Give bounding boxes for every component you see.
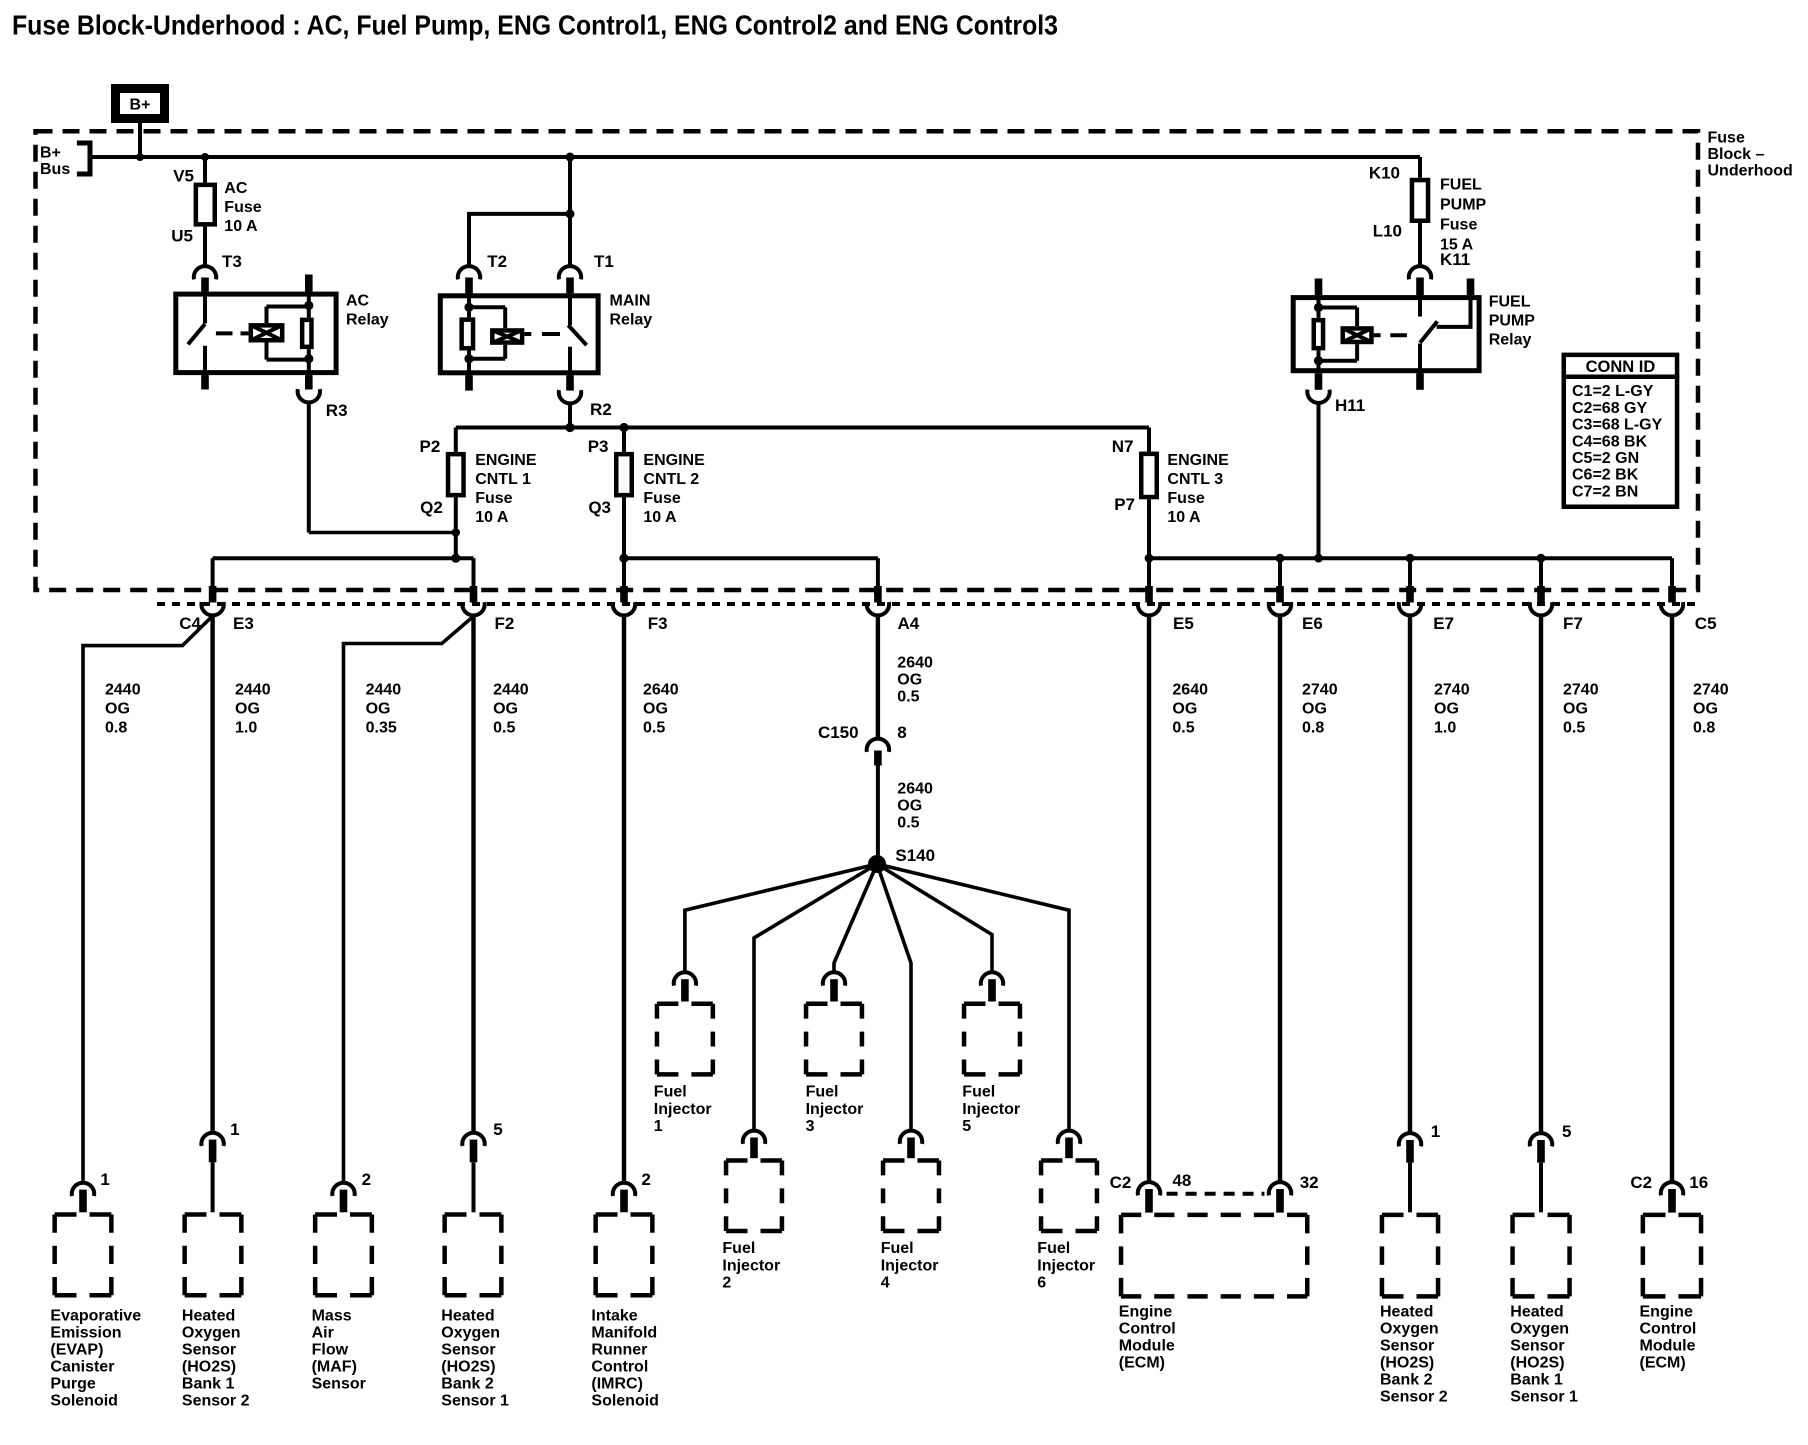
svg-text:OG: OG	[105, 701, 130, 718]
svg-text:Fuse: Fuse	[1708, 129, 1745, 146]
svg-text:OG: OG	[493, 701, 518, 718]
svg-text:Underhood: Underhood	[1708, 163, 1793, 180]
svg-text:P3: P3	[588, 437, 609, 456]
svg-text:0.5: 0.5	[897, 688, 919, 705]
svg-text:Heated: Heated	[1380, 1304, 1433, 1321]
svg-text:Evaporative: Evaporative	[50, 1307, 141, 1324]
svg-text:2740: 2740	[1563, 682, 1599, 699]
svg-text:OG: OG	[1563, 701, 1588, 718]
svg-text:OG: OG	[897, 797, 922, 814]
svg-text:Air: Air	[312, 1324, 334, 1341]
svg-text:4: 4	[881, 1275, 890, 1292]
svg-text:1: 1	[654, 1118, 663, 1135]
svg-text:2440: 2440	[493, 682, 529, 699]
svg-text:E3: E3	[233, 614, 254, 633]
svg-text:OG: OG	[897, 671, 922, 688]
svg-text:Solenoid: Solenoid	[50, 1392, 118, 1409]
svg-text:Bank 2: Bank 2	[441, 1375, 494, 1392]
svg-text:Injector: Injector	[654, 1101, 712, 1118]
svg-text:(HO2S): (HO2S)	[441, 1358, 495, 1375]
svg-text:C5: C5	[1695, 614, 1717, 633]
svg-text:1: 1	[100, 1170, 109, 1189]
svg-text:Fuel: Fuel	[654, 1084, 687, 1101]
svg-text:Sensor: Sensor	[441, 1341, 495, 1358]
svg-text:Fuse: Fuse	[1440, 217, 1477, 234]
svg-text:A4: A4	[898, 614, 920, 633]
svg-text:Fuse Block-Underhood : AC, Fue: Fuse Block-Underhood : AC, Fuel Pump, EN…	[12, 10, 1058, 41]
svg-text:2640: 2640	[897, 780, 933, 797]
svg-text:2440: 2440	[366, 682, 402, 699]
svg-text:Canister: Canister	[50, 1358, 114, 1375]
svg-text:Mass: Mass	[312, 1307, 352, 1324]
svg-text:3: 3	[806, 1118, 815, 1135]
svg-text:Fuel: Fuel	[1037, 1240, 1070, 1257]
svg-text:10 A: 10 A	[475, 509, 509, 526]
svg-text:(HO2S): (HO2S)	[182, 1358, 236, 1375]
svg-text:(IMRC): (IMRC)	[591, 1375, 643, 1392]
svg-text:CNTL 1: CNTL 1	[475, 471, 531, 488]
svg-text:ENGINE: ENGINE	[475, 452, 537, 469]
svg-text:U5: U5	[171, 227, 193, 246]
svg-text:Fuse: Fuse	[475, 490, 512, 507]
svg-text:2740: 2740	[1434, 682, 1470, 699]
svg-text:0.5: 0.5	[1172, 720, 1194, 737]
svg-text:C5=2 GN: C5=2 GN	[1572, 450, 1639, 467]
svg-text:2740: 2740	[1693, 682, 1729, 699]
svg-text:E6: E6	[1302, 614, 1323, 633]
svg-text:32: 32	[1300, 1173, 1319, 1192]
svg-text:Bank 1: Bank 1	[1510, 1372, 1563, 1389]
svg-text:P2: P2	[420, 437, 441, 456]
svg-text:PUMP: PUMP	[1489, 313, 1536, 330]
svg-text:T2: T2	[487, 252, 507, 271]
svg-text:MAIN: MAIN	[610, 293, 651, 310]
svg-text:8: 8	[897, 723, 906, 742]
svg-text:OG: OG	[1172, 701, 1197, 718]
svg-text:Sensor 2: Sensor 2	[1380, 1389, 1448, 1406]
svg-text:V5: V5	[173, 167, 194, 186]
svg-text:OG: OG	[366, 701, 391, 718]
svg-text:Heated: Heated	[441, 1307, 494, 1324]
svg-text:Injector: Injector	[1037, 1257, 1095, 1274]
svg-text:5: 5	[962, 1118, 971, 1135]
svg-text:Oxygen: Oxygen	[1380, 1321, 1439, 1338]
svg-text:Sensor 1: Sensor 1	[1510, 1389, 1578, 1406]
svg-text:Manifold: Manifold	[591, 1324, 657, 1341]
svg-text:Q3: Q3	[588, 498, 611, 517]
svg-text:Engine: Engine	[1640, 1304, 1693, 1321]
svg-text:B+: B+	[40, 145, 61, 162]
svg-text:2: 2	[641, 1170, 650, 1189]
svg-text:Fuel: Fuel	[881, 1240, 914, 1257]
svg-text:2640: 2640	[1172, 682, 1208, 699]
svg-text:Fuel: Fuel	[806, 1084, 839, 1101]
svg-text:1: 1	[230, 1120, 239, 1139]
svg-text:Heated: Heated	[1510, 1304, 1563, 1321]
svg-text:Sensor: Sensor	[312, 1375, 366, 1392]
svg-text:Block –: Block –	[1708, 146, 1765, 163]
svg-text:Sensor: Sensor	[1510, 1338, 1564, 1355]
svg-text:T1: T1	[594, 252, 614, 271]
svg-text:Solenoid: Solenoid	[591, 1392, 659, 1409]
svg-text:10 A: 10 A	[224, 218, 258, 235]
svg-text:Fuse: Fuse	[1167, 490, 1204, 507]
svg-text:CNTL 3: CNTL 3	[1167, 471, 1223, 488]
svg-text:C3=68 L-GY: C3=68 L-GY	[1572, 417, 1663, 434]
svg-text:(HO2S): (HO2S)	[1510, 1355, 1564, 1372]
svg-text:Module: Module	[1640, 1338, 1696, 1355]
svg-text:2440: 2440	[105, 682, 141, 699]
svg-text:E7: E7	[1433, 614, 1454, 633]
svg-text:Engine: Engine	[1119, 1304, 1172, 1321]
svg-text:S140: S140	[895, 846, 935, 865]
svg-text:Fuse: Fuse	[643, 490, 680, 507]
svg-text:Intake: Intake	[591, 1307, 637, 1324]
svg-text:Injector: Injector	[962, 1101, 1020, 1118]
svg-text:Relay: Relay	[346, 312, 389, 329]
svg-text:Control: Control	[1640, 1321, 1697, 1338]
svg-text:0.5: 0.5	[493, 720, 515, 737]
svg-text:1: 1	[1431, 1122, 1440, 1141]
svg-text:1.0: 1.0	[1434, 720, 1456, 737]
svg-text:C1=2 L-GY: C1=2 L-GY	[1572, 383, 1654, 400]
svg-text:0.8: 0.8	[1302, 720, 1324, 737]
svg-text:L10: L10	[1373, 222, 1402, 241]
svg-text:Injector: Injector	[881, 1257, 939, 1274]
svg-text:5: 5	[493, 1120, 502, 1139]
svg-text:C2: C2	[1110, 1173, 1132, 1192]
svg-text:2: 2	[362, 1170, 371, 1189]
svg-text:2640: 2640	[897, 654, 933, 671]
svg-text:0.5: 0.5	[1563, 720, 1585, 737]
svg-text:K11: K11	[1440, 250, 1470, 269]
svg-text:Sensor 1: Sensor 1	[441, 1392, 509, 1409]
svg-text:OG: OG	[235, 701, 260, 718]
svg-text:Fuel: Fuel	[962, 1084, 995, 1101]
svg-text:Runner: Runner	[591, 1341, 647, 1358]
svg-text:Sensor 2: Sensor 2	[182, 1392, 250, 1409]
svg-text:2: 2	[722, 1275, 731, 1292]
svg-text:2440: 2440	[235, 682, 271, 699]
svg-text:2740: 2740	[1302, 682, 1338, 699]
svg-text:Control: Control	[591, 1358, 648, 1375]
svg-text:Bank 1: Bank 1	[182, 1375, 235, 1392]
svg-text:F2: F2	[495, 614, 515, 633]
svg-text:F7: F7	[1563, 614, 1583, 633]
svg-text:Bank 2: Bank 2	[1380, 1372, 1433, 1389]
svg-text:P7: P7	[1114, 495, 1135, 514]
svg-text:OG: OG	[643, 701, 668, 718]
svg-text:16: 16	[1689, 1173, 1708, 1192]
svg-text:Fuse: Fuse	[224, 199, 261, 216]
svg-text:AC: AC	[224, 180, 248, 197]
svg-text:(ECM): (ECM)	[1640, 1355, 1686, 1372]
svg-text:ENGINE: ENGINE	[1167, 452, 1229, 469]
svg-text:Bus: Bus	[40, 161, 70, 178]
svg-text:R2: R2	[590, 400, 612, 419]
svg-text:OG: OG	[1693, 701, 1718, 718]
svg-text:Fuel: Fuel	[722, 1240, 755, 1257]
svg-text:Control: Control	[1119, 1321, 1176, 1338]
svg-text:FUEL: FUEL	[1440, 177, 1482, 194]
svg-text:10 A: 10 A	[643, 509, 677, 526]
svg-text:6: 6	[1037, 1275, 1046, 1292]
svg-text:CNTL 2: CNTL 2	[643, 471, 699, 488]
svg-text:0.5: 0.5	[643, 720, 665, 737]
svg-text:C2=68 GY: C2=68 GY	[1572, 400, 1647, 417]
svg-text:B+: B+	[130, 97, 151, 114]
svg-text:T3: T3	[222, 252, 242, 271]
svg-text:Relay: Relay	[1489, 332, 1532, 349]
svg-text:(EVAP): (EVAP)	[50, 1341, 103, 1358]
svg-text:Oxygen: Oxygen	[441, 1324, 500, 1341]
svg-text:2640: 2640	[643, 682, 679, 699]
svg-text:K10: K10	[1369, 164, 1400, 183]
svg-text:PUMP: PUMP	[1440, 197, 1487, 214]
svg-text:Oxygen: Oxygen	[1510, 1321, 1569, 1338]
svg-text:5: 5	[1562, 1122, 1571, 1141]
svg-text:Emission: Emission	[50, 1324, 121, 1341]
svg-text:Injector: Injector	[722, 1257, 780, 1274]
svg-text:F3: F3	[648, 614, 668, 633]
svg-text:0.5: 0.5	[897, 814, 919, 831]
svg-text:R3: R3	[326, 401, 348, 420]
svg-text:48: 48	[1172, 1171, 1191, 1190]
svg-text:AC: AC	[346, 293, 370, 310]
svg-text:OG: OG	[1434, 701, 1459, 718]
svg-text:ENGINE: ENGINE	[643, 452, 705, 469]
svg-text:Flow: Flow	[312, 1341, 349, 1358]
svg-text:N7: N7	[1112, 437, 1134, 456]
svg-text:0.35: 0.35	[366, 720, 397, 737]
svg-text:Heated: Heated	[182, 1307, 235, 1324]
svg-text:0.8: 0.8	[105, 720, 127, 737]
svg-text:C2: C2	[1630, 1173, 1652, 1192]
svg-text:FUEL: FUEL	[1489, 294, 1531, 311]
svg-text:10 A: 10 A	[1167, 509, 1201, 526]
svg-text:Q2: Q2	[420, 498, 443, 517]
svg-text:(MAF): (MAF)	[312, 1358, 357, 1375]
svg-text:CONN ID: CONN ID	[1586, 358, 1656, 376]
svg-text:Purge: Purge	[50, 1375, 95, 1392]
svg-text:1.0: 1.0	[235, 720, 257, 737]
svg-text:(HO2S): (HO2S)	[1380, 1355, 1434, 1372]
svg-text:OG: OG	[1302, 701, 1327, 718]
svg-text:Module: Module	[1119, 1338, 1175, 1355]
svg-text:C6=2 BK: C6=2 BK	[1572, 467, 1639, 484]
svg-text:Oxygen: Oxygen	[182, 1324, 241, 1341]
svg-text:0.8: 0.8	[1693, 720, 1715, 737]
svg-text:Sensor: Sensor	[1380, 1338, 1434, 1355]
svg-text:C7=2 BN: C7=2 BN	[1572, 483, 1638, 500]
svg-text:C4=68 BK: C4=68 BK	[1572, 433, 1648, 450]
svg-text:H11: H11	[1335, 396, 1365, 415]
svg-text:E5: E5	[1173, 614, 1194, 633]
svg-text:Injector: Injector	[806, 1101, 864, 1118]
svg-text:Relay: Relay	[610, 312, 653, 329]
svg-text:C150: C150	[818, 723, 859, 742]
svg-text:Sensor: Sensor	[182, 1341, 236, 1358]
svg-text:(ECM): (ECM)	[1119, 1355, 1165, 1372]
